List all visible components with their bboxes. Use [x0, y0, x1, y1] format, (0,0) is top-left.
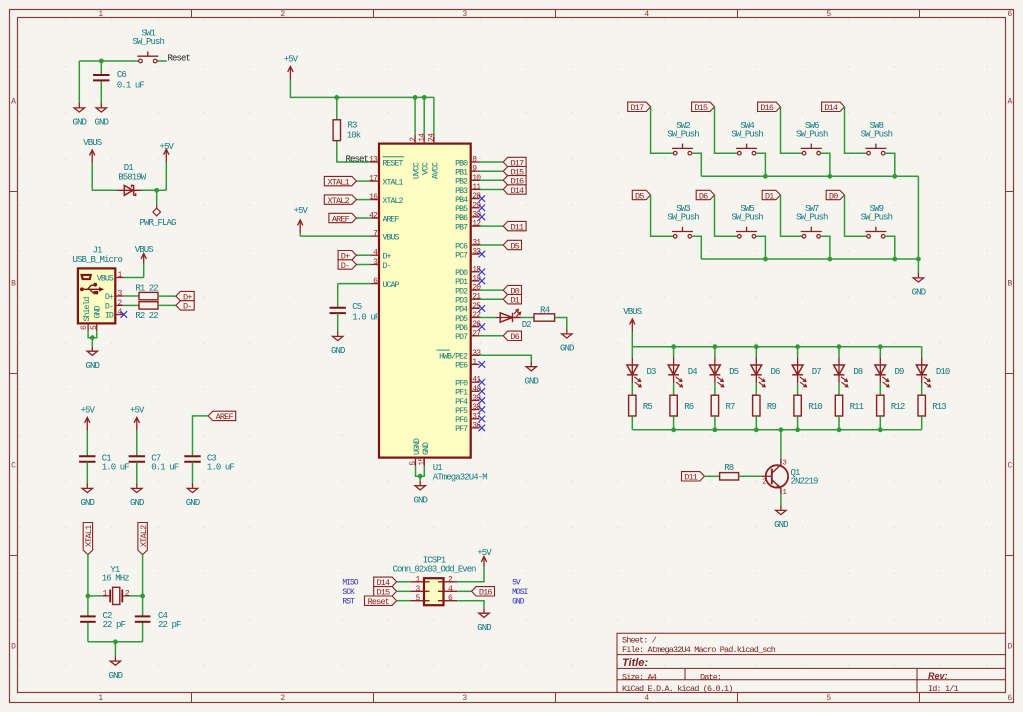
wire — [704, 475, 719, 477]
wire — [692, 236, 702, 259]
svg-text:D6: D6 — [699, 191, 708, 201]
svg-text:VBUS: VBUS — [135, 245, 154, 255]
global label D+ — [176, 291, 194, 302]
junction — [671, 344, 676, 349]
wire — [820, 153, 830, 176]
note 5V MOSI GND — [512, 579, 527, 607]
junction — [90, 335, 95, 340]
ground — [186, 484, 200, 509]
LED D6 — [751, 358, 780, 387]
svg-text:Conn_02x03_Odd_Even: Conn_02x03_Odd_Even — [393, 565, 476, 575]
global label D11 — [503, 221, 526, 232]
wire — [885, 236, 895, 259]
svg-text:D16: D16 — [760, 103, 774, 113]
capacitor C4 — [135, 611, 181, 630]
junction — [422, 95, 427, 100]
wire — [838, 347, 840, 358]
svg-text:XTAL1: XTAL1 — [383, 178, 404, 187]
global label D16 — [472, 587, 495, 598]
svg-text:AREF: AREF — [383, 215, 400, 224]
global label D6 — [503, 331, 521, 342]
junction — [713, 427, 718, 432]
svg-text:Id: 1/1: Id: 1/1 — [928, 684, 959, 694]
LED D8 — [834, 358, 863, 387]
svg-text:22 pF: 22 pF — [158, 620, 181, 630]
svg-text:16 MHz: 16 MHz — [102, 574, 130, 584]
wire — [299, 233, 301, 236]
wire — [290, 80, 434, 98]
wire — [356, 180, 370, 182]
wire — [480, 189, 504, 191]
wire — [130, 595, 143, 597]
svg-text:GND: GND — [109, 671, 123, 681]
svg-text:R8: R8 — [724, 463, 734, 473]
svg-text:D1: D1 — [124, 163, 134, 173]
wire — [457, 601, 484, 609]
svg-text:D+: D+ — [383, 253, 392, 262]
svg-text:KiCad E.D.A. kicad (6.0.1): KiCad E.D.A. kicad (6.0.1) — [622, 684, 733, 694]
wire — [87, 596, 89, 616]
wire — [356, 254, 370, 256]
svg-text:1: 1 — [98, 694, 103, 703]
svg-text:B: B — [1008, 279, 1013, 288]
capacitor C2 — [80, 611, 125, 630]
wire — [921, 383, 923, 395]
LED D9 — [875, 358, 904, 387]
wire — [480, 161, 504, 163]
svg-text:Shield: Shield — [82, 296, 92, 321]
wire — [755, 347, 757, 358]
svg-text:D0: D0 — [829, 191, 838, 201]
svg-text:XTAL1: XTAL1 — [327, 177, 349, 187]
power VBUS — [623, 307, 642, 332]
svg-text:Date:: Date: — [700, 672, 721, 682]
svg-text:1.0 uF: 1.0 uF — [102, 463, 130, 473]
svg-text:+5V: +5V — [477, 548, 492, 558]
power +5V — [477, 548, 492, 566]
svg-text:5: 5 — [826, 694, 831, 703]
wire — [651, 195, 674, 236]
svg-text:15: 15 — [418, 457, 427, 466]
svg-text:SW_Push: SW_Push — [667, 129, 699, 139]
wire — [193, 416, 209, 456]
wire — [91, 338, 93, 347]
svg-text:VBUS: VBUS — [623, 307, 642, 317]
svg-text:GND: GND — [331, 346, 345, 356]
wire — [457, 567, 484, 582]
svg-text:PD1: PD1 — [455, 278, 468, 287]
svg-text:5V: 5V — [512, 579, 521, 588]
global label D14 — [822, 102, 845, 113]
capacitor C1 — [79, 454, 129, 473]
svg-text:PB6: PB6 — [455, 214, 468, 223]
svg-text:D: D — [11, 642, 16, 651]
svg-text:42: 42 — [369, 212, 378, 221]
wire — [78, 61, 80, 103]
wire — [91, 163, 93, 190]
wire — [797, 416, 799, 430]
svg-text:5: 5 — [826, 10, 831, 19]
resistor R11 — [835, 395, 863, 416]
junction — [754, 427, 759, 432]
switch SW3 — [667, 204, 699, 238]
wire — [673, 416, 675, 430]
svg-text:J1: J1 — [92, 246, 102, 256]
switch SW1 — [133, 29, 165, 63]
junction — [763, 257, 768, 262]
svg-text:3: 3 — [462, 10, 467, 19]
wire — [142, 622, 144, 642]
svg-text:R12: R12 — [891, 402, 905, 412]
svg-text:R3: R3 — [348, 121, 358, 131]
global label XTAL1 — [83, 523, 94, 555]
ground — [95, 103, 109, 128]
wire — [86, 462, 88, 484]
svg-text:C: C — [11, 461, 16, 470]
svg-text:C5: C5 — [352, 302, 362, 312]
wire — [124, 277, 144, 279]
svg-text:C6: C6 — [117, 70, 127, 80]
junction — [828, 174, 833, 179]
global label D1 — [762, 190, 780, 201]
svg-text:Size: A4: Size: A4 — [622, 672, 657, 682]
wire — [356, 217, 370, 219]
svg-text:4: 4 — [644, 694, 649, 703]
wire — [165, 162, 167, 190]
svg-text:21: 21 — [472, 293, 481, 302]
wire — [356, 264, 370, 266]
svg-text:A: A — [1008, 97, 1013, 106]
wire — [631, 416, 633, 430]
resistor R3 — [333, 120, 361, 141]
wire — [92, 189, 117, 191]
svg-text:PF4: PF4 — [455, 398, 468, 407]
svg-text:R11: R11 — [850, 402, 864, 412]
resistor R12 — [877, 395, 905, 416]
wire — [423, 97, 425, 134]
power +5V — [284, 55, 299, 80]
svg-text:D7: D7 — [812, 367, 822, 377]
junction — [878, 427, 883, 432]
svg-text:24: 24 — [428, 133, 437, 142]
wire — [631, 383, 633, 395]
wire — [921, 347, 923, 358]
svg-text:R6: R6 — [684, 402, 694, 412]
wire — [142, 555, 144, 596]
wire — [714, 383, 716, 395]
svg-text:D11: D11 — [511, 222, 525, 232]
ground — [109, 656, 123, 681]
global label XTAL1 — [324, 176, 356, 187]
LED D4 — [668, 358, 697, 387]
svg-text:PD2: PD2 — [455, 287, 468, 296]
svg-text:10: 10 — [472, 174, 481, 183]
wire — [79, 60, 138, 62]
capacitor C7 — [129, 454, 179, 473]
svg-text:0.1 uF: 0.1 uF — [151, 463, 179, 473]
wire — [673, 347, 675, 358]
global label D5 — [503, 240, 521, 251]
wire — [879, 347, 881, 358]
ground — [86, 346, 100, 371]
wire — [714, 347, 716, 358]
svg-text:27: 27 — [472, 329, 481, 338]
wire — [701, 258, 918, 260]
wire — [86, 431, 88, 457]
svg-text:GND: GND — [512, 598, 525, 607]
switch SW7 — [796, 204, 828, 238]
wire — [100, 61, 102, 75]
svg-text:+5V: +5V — [160, 142, 175, 152]
resistor R7 — [711, 395, 735, 416]
svg-text:R4: R4 — [540, 305, 550, 315]
power VBUS — [83, 138, 102, 163]
wire — [337, 313, 339, 331]
svg-text:A: A — [11, 97, 16, 106]
global label D5 — [632, 190, 650, 201]
wire — [356, 199, 370, 201]
ground — [525, 362, 539, 387]
wire — [88, 641, 143, 643]
svg-text:17: 17 — [369, 175, 378, 184]
wire — [480, 298, 504, 300]
wire — [521, 317, 535, 319]
svg-text:D3: D3 — [647, 367, 657, 377]
global label AREF — [208, 411, 236, 422]
svg-text:SW_Push: SW_Push — [667, 213, 699, 223]
wire — [480, 170, 504, 172]
ground — [413, 481, 427, 506]
wire — [917, 259, 919, 273]
ground — [912, 273, 926, 298]
junction — [892, 257, 897, 262]
svg-text:AVCC: AVCC — [431, 162, 440, 179]
junction — [878, 344, 883, 349]
svg-text:PB5: PB5 — [455, 205, 468, 214]
wire — [457, 590, 472, 592]
wire — [780, 494, 782, 505]
svg-text:1.0 uF: 1.0 uF — [207, 463, 235, 473]
LED D7 — [792, 358, 821, 387]
svg-text:D-: D- — [341, 261, 350, 271]
wire — [820, 236, 830, 259]
resistor R1 — [135, 283, 158, 299]
global label D17 — [503, 157, 526, 168]
svg-text:SW_Push: SW_Push — [796, 129, 828, 139]
svg-text:XTAL1: XTAL1 — [84, 525, 94, 547]
svg-text:D9: D9 — [895, 367, 905, 377]
connector ICSP1 — [393, 556, 476, 606]
junction — [99, 59, 104, 64]
op-amp U1 ATmega32U4-M — [369, 133, 487, 483]
svg-text:File: Atmega32U4 Macro Pad.kic: File: Atmega32U4 Macro Pad.kicad_sch — [622, 645, 776, 655]
svg-text:D-: D- — [105, 302, 113, 311]
svg-text:UCAP: UCAP — [383, 281, 400, 290]
svg-text:6: 6 — [1007, 10, 1012, 19]
ground — [73, 103, 87, 128]
svg-text:VCC: VCC — [422, 162, 431, 175]
svg-text:PD7: PD7 — [455, 333, 468, 342]
svg-text:Reset: Reset — [168, 53, 191, 63]
wire — [414, 97, 416, 134]
svg-text:R10: R10 — [808, 402, 822, 412]
power +5V — [293, 206, 308, 233]
svg-text:R9: R9 — [767, 402, 777, 412]
svg-text:C: C — [1008, 461, 1013, 470]
svg-text:D4: D4 — [688, 367, 698, 377]
svg-text:D15: D15 — [694, 103, 708, 113]
svg-text:1: 1 — [98, 10, 103, 19]
capacitor C6 — [93, 70, 144, 91]
svg-text:D6: D6 — [771, 367, 781, 377]
junction — [140, 594, 145, 599]
wire — [756, 236, 766, 259]
svg-text:GND: GND — [81, 498, 95, 508]
resistor R13 — [918, 395, 946, 416]
svg-text:AREF: AREF — [332, 214, 350, 224]
note MISO SCK RST — [342, 579, 358, 607]
wire — [631, 332, 633, 347]
wire — [651, 107, 674, 153]
junction — [86, 594, 91, 599]
svg-text:AREF: AREF — [216, 412, 234, 422]
junction — [795, 427, 800, 432]
resistor R6 — [670, 395, 694, 416]
svg-text:D10: D10 — [936, 367, 950, 377]
junction — [413, 95, 418, 100]
svg-text:ID: ID — [105, 312, 114, 321]
wire — [845, 195, 867, 236]
resistor R5 — [629, 395, 653, 416]
global label XTAL2 — [138, 523, 149, 555]
svg-text:PD3: PD3 — [455, 297, 468, 306]
svg-text:PB3: PB3 — [455, 187, 468, 196]
wire — [879, 416, 881, 430]
svg-text:D6: D6 — [510, 332, 519, 342]
svg-text:+5V: +5V — [284, 55, 299, 65]
svg-text:XTAL2: XTAL2 — [383, 197, 404, 206]
svg-text:PC6: PC6 — [455, 242, 468, 251]
svg-text:PF0: PF0 — [455, 380, 468, 389]
svg-text:B5819W: B5819W — [118, 173, 147, 183]
svg-text:PB4: PB4 — [455, 196, 468, 205]
svg-text:D8: D8 — [853, 367, 863, 377]
svg-text:U1: U1 — [433, 463, 443, 473]
transistor Q1 2N2219 — [762, 459, 818, 498]
svg-text:12: 12 — [472, 220, 481, 229]
svg-text:Reset: Reset — [368, 597, 390, 607]
resistor R2 — [135, 302, 158, 321]
svg-text:4: 4 — [644, 10, 649, 19]
ground — [477, 608, 491, 633]
svg-text:D16: D16 — [479, 588, 493, 598]
junction — [892, 174, 897, 179]
svg-text:PD0: PD0 — [455, 269, 468, 278]
junction — [916, 257, 921, 262]
junction — [113, 639, 118, 644]
svg-text:PB7: PB7 — [455, 223, 468, 232]
global label D1 — [503, 295, 521, 306]
wire — [136, 462, 138, 484]
svg-text:PE6: PE6 — [455, 362, 468, 371]
resistor R4 — [534, 305, 555, 321]
svg-text:D11: D11 — [684, 473, 698, 483]
global label D0 — [826, 190, 844, 201]
svg-text:PB0: PB0 — [455, 159, 468, 168]
crystal Y1 — [102, 565, 130, 604]
svg-text:SW_Push: SW_Push — [133, 37, 165, 47]
svg-text:2N2219: 2N2219 — [791, 477, 819, 487]
svg-text:13: 13 — [369, 156, 378, 165]
svg-text:14: 14 — [418, 133, 427, 142]
svg-text:11: 11 — [472, 183, 481, 192]
svg-text:R7: R7 — [726, 402, 736, 412]
svg-text:D5: D5 — [635, 191, 644, 201]
svg-text:Rev:: Rev: — [928, 671, 948, 681]
diode D2 — [496, 309, 531, 330]
wire — [480, 317, 496, 319]
power +5V — [160, 142, 175, 163]
wire — [755, 416, 757, 430]
wire — [88, 331, 97, 338]
svg-text:XTAL2: XTAL2 — [139, 525, 149, 547]
connector J1 USB_B_Micro — [72, 246, 123, 332]
global label Reset — [365, 596, 397, 607]
wire — [157, 60, 167, 62]
wire — [555, 318, 567, 330]
global label XTAL2 — [324, 195, 356, 206]
svg-text:22: 22 — [149, 283, 159, 293]
wire — [701, 175, 918, 177]
svg-text:UGND: UGND — [413, 438, 422, 455]
wire — [124, 304, 139, 306]
svg-text:GND: GND — [73, 118, 87, 128]
svg-text:RST: RST — [342, 598, 355, 607]
svg-text:SW_Push: SW_Push — [861, 129, 893, 139]
svg-text:D-: D- — [383, 262, 391, 271]
svg-text:+5V: +5V — [130, 406, 145, 416]
svg-text:+5V: +5V — [81, 406, 96, 416]
junction — [713, 344, 718, 349]
global label D- — [338, 260, 356, 271]
wire — [480, 244, 504, 246]
wire — [838, 383, 840, 395]
svg-text:D1: D1 — [765, 191, 774, 201]
no-connect — [121, 311, 128, 318]
wire — [397, 600, 411, 602]
wire — [632, 346, 921, 348]
svg-text:D17: D17 — [631, 103, 645, 113]
wire — [756, 153, 766, 176]
resistor R8 — [720, 463, 739, 480]
power VBUS — [135, 245, 154, 263]
svg-text:PD5: PD5 — [455, 315, 468, 324]
wire — [156, 190, 158, 205]
diode D1 — [118, 163, 147, 195]
svg-text:Reset: Reset — [346, 155, 369, 165]
svg-text:D: D — [1008, 642, 1013, 651]
svg-text:2: 2 — [762, 479, 766, 487]
svg-text:GND: GND — [422, 442, 431, 455]
title block — [617, 633, 1006, 694]
svg-text:0.1 uF: 0.1 uF — [117, 81, 145, 91]
switch SW5 — [731, 204, 763, 238]
svg-text:3: 3 — [462, 694, 467, 703]
wire — [480, 179, 504, 181]
svg-text:SW_Push: SW_Push — [731, 129, 763, 139]
junction — [837, 427, 842, 432]
switch SW6 — [796, 121, 828, 155]
